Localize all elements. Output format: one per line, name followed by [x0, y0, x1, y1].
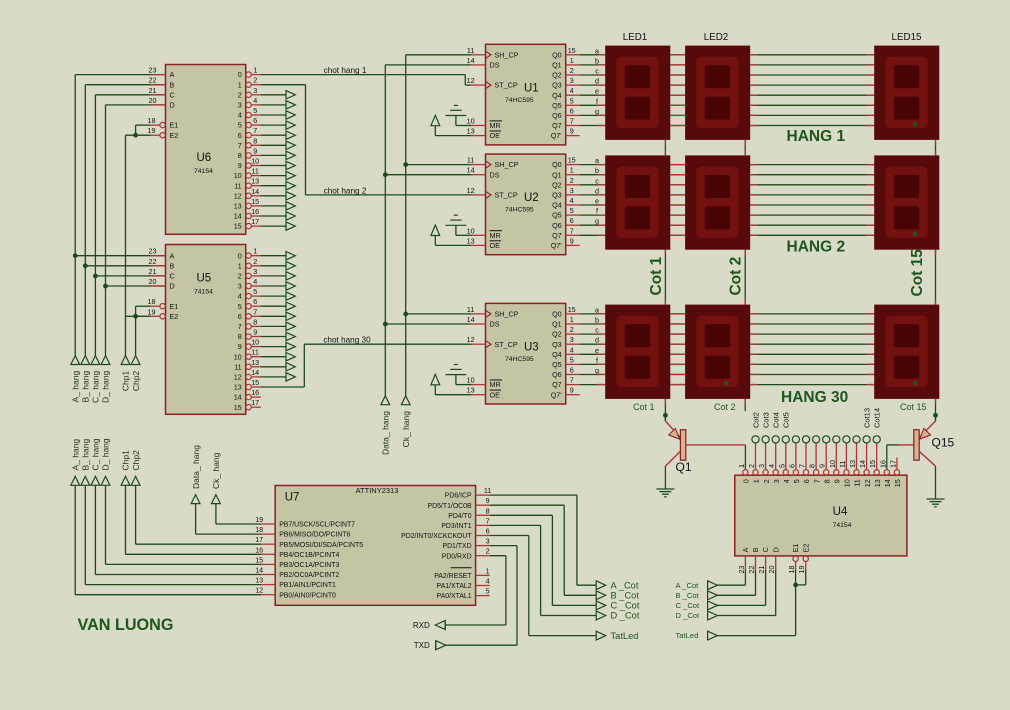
svg-text:C _Cot: C _Cot [676, 601, 701, 610]
svg-text:TatLed: TatLed [611, 631, 639, 641]
svg-text:PA2/RESET: PA2/RESET [434, 573, 472, 580]
svg-text:15: 15 [255, 555, 263, 564]
svg-text:13: 13 [234, 202, 242, 211]
svg-text:g: g [595, 366, 599, 375]
svg-text:Cot5: Cot5 [782, 412, 791, 428]
svg-text:DS: DS [490, 61, 500, 70]
labels lower terminal group [70, 438, 140, 470]
svg-text:23: 23 [149, 66, 157, 75]
svg-text:8: 8 [253, 317, 257, 326]
svg-text:13: 13 [251, 177, 259, 186]
svg-text:PA0/XTAL1: PA0/XTAL1 [437, 593, 472, 600]
labels A_Cot..TatLed group 1 [611, 580, 640, 640]
svg-text:19: 19 [148, 307, 156, 316]
svg-text:14: 14 [467, 56, 475, 65]
net labels a-g row U2 [595, 156, 599, 226]
svg-text:22: 22 [149, 257, 157, 266]
svg-text:HANG 30: HANG 30 [781, 389, 848, 406]
mcu U7 body [275, 486, 475, 606]
svg-text:11: 11 [234, 362, 241, 371]
svg-text:3: 3 [570, 76, 574, 85]
svg-text:74154: 74154 [194, 289, 213, 296]
svg-text:16: 16 [251, 207, 259, 216]
svg-text:9: 9 [238, 161, 242, 170]
svg-text:11: 11 [484, 486, 491, 495]
svg-text:Chp1: Chp1 [121, 450, 131, 471]
svg-text:8: 8 [486, 506, 490, 515]
svg-text:4: 4 [782, 479, 791, 483]
svg-text:11: 11 [853, 479, 862, 486]
svg-text:12: 12 [863, 479, 872, 487]
svg-text:PD4/T0: PD4/T0 [448, 513, 472, 520]
svg-text:C: C [170, 90, 175, 99]
wire PD4 to C_Cot [490, 515, 597, 605]
svg-text:4: 4 [253, 96, 257, 105]
wire lower Ck_hang to U7 PB7 [216, 504, 261, 524]
svg-text:13: 13 [848, 460, 857, 468]
svg-text:DS: DS [490, 320, 500, 329]
svg-text:9: 9 [253, 328, 257, 337]
7-segment display LED15 [866, 46, 939, 140]
svg-text:e: e [595, 197, 599, 206]
labels Data_hang Ck_hang upper pair [381, 411, 411, 455]
svg-text:PB7/USCK/SCL/PCINT7: PB7/USCK/SCL/PCINT7 [279, 522, 355, 529]
wire C_hang bus [95, 95, 165, 356]
svg-text:PB1/AIN1/PCINT1: PB1/AIN1/PCINT1 [279, 582, 336, 589]
svg-text:18: 18 [255, 525, 263, 534]
svg-text:HANG 1: HANG 1 [787, 128, 846, 145]
svg-text:RXD: RXD [413, 621, 430, 630]
svg-text:23: 23 [737, 566, 746, 574]
svg-text:15: 15 [234, 222, 242, 231]
wire PD2 to TatLed [490, 536, 597, 636]
svg-text:MR: MR [490, 121, 501, 130]
svg-text:A_ hang: A_ hang [70, 371, 80, 403]
svg-text:D: D [771, 547, 780, 552]
svg-text:chot hang 30: chot hang 30 [323, 336, 371, 345]
wire PD6 to A_Cot [490, 495, 597, 585]
junction dot E1 E2 net [793, 583, 798, 588]
svg-text:Chp2: Chp2 [131, 371, 141, 392]
svg-text:a: a [595, 46, 599, 55]
input terminal at U3 OE [431, 374, 472, 394]
svg-text:Q3: Q3 [552, 340, 562, 349]
svg-text:9: 9 [570, 236, 574, 245]
wire lower B_hang to U7 PB1 [85, 485, 261, 584]
svg-text:5: 5 [486, 587, 490, 596]
svg-text:Q7': Q7' [551, 390, 563, 399]
svg-text:5: 5 [238, 121, 242, 130]
svg-text:ST_CP: ST_CP [495, 191, 518, 200]
wire PD3 to D_Cot [490, 525, 597, 615]
svg-text:Q6: Q6 [552, 111, 562, 120]
svg-text:18: 18 [148, 297, 156, 306]
svg-text:17: 17 [255, 535, 263, 544]
terminal TXD [414, 641, 446, 650]
svg-text:Q5: Q5 [552, 101, 562, 110]
svg-text:Cot 2: Cot 2 [714, 402, 736, 412]
svg-text:A: A [741, 547, 750, 552]
svg-text:15: 15 [251, 378, 259, 387]
wire segment lines row 1 [580, 55, 875, 126]
transistor Q15 [898, 415, 936, 499]
decoder U4 body [735, 475, 907, 556]
svg-text:13: 13 [467, 236, 475, 245]
svg-text:10: 10 [251, 157, 259, 166]
svg-text:A: A [170, 251, 175, 260]
svg-text:VAN LUONG: VAN LUONG [78, 616, 174, 634]
svg-text:B: B [170, 80, 175, 89]
svg-text:LED15: LED15 [892, 32, 923, 43]
svg-text:Q4: Q4 [552, 201, 562, 210]
svg-text:15: 15 [893, 479, 902, 487]
svg-text:U5: U5 [197, 273, 212, 285]
svg-text:74HC595: 74HC595 [505, 97, 534, 104]
svg-text:2: 2 [570, 325, 574, 334]
svg-text:0: 0 [742, 479, 751, 483]
svg-text:12: 12 [467, 186, 475, 195]
svg-text:U3: U3 [524, 341, 539, 353]
wire A_Cot to U4 A [717, 570, 745, 585]
svg-text:15: 15 [568, 156, 576, 165]
svg-text:d: d [595, 77, 599, 86]
svg-text:Q7: Q7 [552, 121, 562, 130]
svg-text:13: 13 [255, 576, 263, 585]
svg-text:10: 10 [828, 460, 837, 468]
svg-text:1: 1 [253, 247, 257, 256]
power symbol at U2 MR [446, 215, 472, 235]
svg-text:Cot13: Cot13 [862, 408, 871, 428]
svg-text:PB2/OC0A/PCINT2: PB2/OC0A/PCINT2 [279, 572, 339, 579]
svg-text:6: 6 [570, 216, 574, 225]
svg-text:5: 5 [792, 479, 801, 483]
svg-text:13: 13 [467, 386, 475, 395]
input terminal at U2 OE [431, 225, 472, 245]
svg-text:Ck_ hang: Ck_ hang [211, 452, 221, 489]
svg-text:5: 5 [777, 464, 786, 468]
svg-text:16: 16 [255, 545, 263, 554]
svg-text:22: 22 [149, 76, 157, 85]
7-segment display LED-R3C15 [866, 305, 939, 399]
wire D_Cot to U4 D [717, 570, 775, 616]
svg-text:4: 4 [253, 277, 257, 286]
svg-text:B: B [751, 547, 760, 552]
svg-text:11: 11 [467, 156, 474, 165]
svg-text:2: 2 [747, 464, 756, 468]
7-segment display LED-R3C1 [597, 305, 670, 399]
svg-text:LED2: LED2 [704, 32, 729, 43]
svg-text:Q3: Q3 [552, 81, 562, 90]
output arrows of U5 [261, 252, 296, 382]
svg-text:10: 10 [467, 376, 475, 385]
svg-text:6: 6 [570, 366, 574, 375]
wire B_Cot to U4 B [717, 570, 755, 595]
junction dot Cot15 [933, 413, 938, 418]
svg-text:PB3/OC1A/PCINT3: PB3/OC1A/PCINT3 [279, 562, 339, 569]
svg-text:12: 12 [255, 586, 263, 595]
svg-text:4: 4 [486, 577, 490, 586]
svg-text:d: d [595, 186, 599, 195]
svg-text:10: 10 [234, 171, 242, 180]
svg-text:11: 11 [251, 167, 258, 176]
svg-text:MR: MR [490, 380, 501, 389]
svg-text:14: 14 [234, 393, 242, 402]
svg-text:D: D [170, 282, 175, 291]
svg-text:1: 1 [570, 315, 574, 324]
svg-text:17: 17 [251, 398, 259, 407]
wire Chp1 net (E pins of U6/U5) [126, 125, 151, 356]
svg-text:74HC595: 74HC595 [505, 356, 534, 363]
junction dot U6 E net [133, 133, 138, 138]
junction dot U5 E net [133, 314, 138, 319]
svg-text:Q1: Q1 [676, 460, 692, 474]
svg-text:PD3/INT1: PD3/INT1 [441, 523, 471, 530]
wire Ck_hang rail [406, 55, 472, 396]
svg-text:B _Cot: B _Cot [611, 591, 640, 601]
shift register U2 body [486, 154, 566, 255]
terminals Data_hang Ck_hang lower pair [191, 495, 220, 504]
svg-text:11: 11 [234, 181, 241, 190]
svg-text:12: 12 [234, 191, 242, 200]
svg-text:Q6: Q6 [552, 370, 562, 379]
svg-text:7: 7 [570, 117, 574, 126]
decoder U5 body [166, 245, 246, 415]
svg-text:7: 7 [570, 376, 574, 385]
wire lower Chp1 to U7 PB4 [126, 485, 262, 554]
svg-text:Cot 15: Cot 15 [900, 402, 927, 412]
wire Q1 base to U4 pin 1 [744, 445, 746, 469]
svg-text:16: 16 [878, 460, 887, 468]
wire lower C_hang to U7 PB2 [95, 485, 261, 574]
svg-text:Q6: Q6 [552, 221, 562, 230]
svg-text:Cot 15: Cot 15 [909, 249, 926, 297]
svg-text:13: 13 [251, 358, 259, 367]
7-segment display LED-R3C2 [677, 305, 750, 399]
svg-text:8: 8 [238, 332, 242, 341]
svg-text:8: 8 [808, 464, 817, 468]
svg-text:b: b [595, 166, 599, 175]
svg-text:TatLed: TatLed [676, 631, 699, 640]
svg-text:9: 9 [253, 146, 257, 155]
svg-text:11: 11 [467, 46, 474, 55]
svg-text:16: 16 [251, 388, 259, 397]
svg-text:b: b [595, 56, 599, 65]
terminals lower group to U7 [71, 476, 140, 485]
wire lower D_hang to U7 PB3 [106, 485, 262, 564]
svg-text:U7: U7 [285, 492, 300, 504]
svg-text:20: 20 [767, 566, 776, 574]
svg-text:OE: OE [490, 390, 501, 399]
svg-text:SH_CP: SH_CP [495, 160, 519, 169]
svg-text:3: 3 [570, 186, 574, 195]
svg-text:PD2/INT0/XCKCKOUT: PD2/INT0/XCKCKOUT [401, 533, 472, 540]
svg-text:U1: U1 [524, 82, 539, 94]
svg-text:9: 9 [570, 127, 574, 136]
svg-text:3: 3 [757, 464, 766, 468]
svg-text:10: 10 [467, 117, 475, 126]
svg-text:11: 11 [467, 305, 474, 314]
7-segment display LED1 [597, 46, 670, 140]
svg-text:Cot 1: Cot 1 [633, 402, 655, 412]
7-segment display LED-R2C1 [597, 155, 670, 249]
wire segment lines row 3 [580, 314, 875, 385]
svg-text:7: 7 [253, 126, 257, 135]
svg-text:2: 2 [253, 257, 257, 266]
svg-text:Q0: Q0 [552, 50, 562, 59]
svg-text:14: 14 [467, 315, 475, 324]
svg-text:Data_ hang: Data_ hang [381, 411, 391, 455]
svg-text:15: 15 [568, 46, 576, 55]
wire lower A_hang to U7 PB0 [75, 485, 261, 594]
svg-text:14: 14 [883, 479, 892, 487]
wire column commons [665, 140, 935, 421]
svg-text:Q3: Q3 [552, 191, 562, 200]
svg-text:10: 10 [251, 338, 259, 347]
svg-text:6: 6 [787, 464, 796, 468]
svg-text:3: 3 [238, 101, 242, 110]
junction dot Cot1 [663, 413, 668, 418]
junction dots on A-D bus at U5 [73, 253, 108, 288]
svg-text:Q15: Q15 [932, 436, 955, 450]
svg-text:MR: MR [490, 231, 501, 240]
svg-text:13: 13 [873, 479, 882, 487]
svg-text:Q1: Q1 [552, 170, 562, 179]
ground under Q15 [927, 499, 945, 507]
svg-text:3: 3 [253, 267, 257, 276]
svg-text:D _Cot: D _Cot [611, 611, 640, 621]
svg-text:7: 7 [238, 322, 242, 331]
wire TatLed to U4 E1 E2 [717, 570, 805, 636]
svg-text:Q1: Q1 [552, 320, 562, 329]
svg-text:18: 18 [787, 566, 796, 574]
svg-text:PD6/ICP: PD6/ICP [445, 493, 472, 500]
svg-text:9: 9 [570, 386, 574, 395]
red stubs right edges of displays [665, 55, 935, 404]
svg-text:PD1/TXD: PD1/TXD [442, 543, 471, 550]
svg-text:ATTINY2313: ATTINY2313 [356, 486, 399, 495]
svg-text:3: 3 [570, 335, 574, 344]
svg-text:1: 1 [737, 464, 746, 468]
svg-text:13: 13 [467, 127, 475, 136]
svg-text:f: f [596, 207, 598, 216]
svg-text:3: 3 [253, 86, 257, 95]
svg-text:5: 5 [570, 355, 574, 364]
svg-text:12: 12 [467, 335, 475, 344]
svg-text:6: 6 [802, 479, 811, 483]
svg-text:Q2: Q2 [552, 330, 562, 339]
svg-text:C: C [761, 547, 770, 552]
svg-text:9: 9 [486, 496, 490, 505]
svg-text:11: 11 [251, 348, 258, 357]
svg-text:2: 2 [762, 479, 771, 483]
svg-text:14: 14 [251, 187, 259, 196]
power symbol at U1 MR [446, 105, 472, 125]
svg-text:21: 21 [149, 267, 157, 276]
svg-text:7: 7 [570, 226, 574, 235]
svg-text:E1: E1 [170, 121, 179, 130]
svg-text:0: 0 [238, 70, 242, 79]
svg-text:SH_CP: SH_CP [495, 310, 519, 319]
svg-text:OE: OE [490, 131, 501, 140]
svg-text:6: 6 [238, 131, 242, 140]
svg-text:E1: E1 [791, 544, 800, 553]
svg-text:HANG 2: HANG 2 [787, 239, 846, 256]
svg-text:1: 1 [253, 66, 257, 75]
svg-text:Q7': Q7' [551, 131, 563, 140]
svg-text:15: 15 [234, 403, 242, 412]
svg-text:18: 18 [148, 116, 156, 125]
svg-text:C_ hang: C_ hang [91, 438, 101, 470]
svg-text:6: 6 [570, 106, 574, 115]
wire chot hang 2 [261, 85, 472, 195]
svg-text:2: 2 [486, 547, 490, 556]
svg-text:6: 6 [253, 297, 257, 306]
wire PD1 to TXD [446, 546, 517, 646]
svg-text:U4: U4 [833, 506, 848, 518]
svg-text:15: 15 [568, 305, 576, 314]
wire Q15 base from U4 pin 16 [887, 445, 898, 469]
svg-text:C_ hang: C_ hang [91, 371, 101, 403]
svg-text:U6: U6 [197, 152, 212, 164]
svg-text:PB6/MISO/DO/PCINT6: PB6/MISO/DO/PCINT6 [279, 532, 350, 539]
svg-text:15: 15 [868, 460, 877, 468]
svg-text:6: 6 [238, 312, 242, 321]
svg-text:20: 20 [149, 96, 157, 105]
svg-text:D: D [170, 101, 175, 110]
svg-text:1: 1 [238, 80, 242, 89]
terminals Data_hang Ck_hang upper pair [381, 396, 410, 405]
svg-text:9: 9 [818, 464, 827, 468]
svg-text:Cot3: Cot3 [761, 412, 770, 428]
svg-text:14: 14 [255, 566, 263, 575]
svg-text:Q1: Q1 [552, 61, 562, 70]
svg-text:B_ hang: B_ hang [81, 439, 91, 471]
svg-text:ST_CP: ST_CP [495, 81, 518, 90]
svg-text:74154: 74154 [194, 168, 213, 175]
svg-text:SH_CP: SH_CP [495, 50, 519, 59]
svg-text:Cot 1: Cot 1 [648, 256, 665, 295]
svg-text:C: C [170, 272, 175, 281]
svg-text:Q7': Q7' [551, 241, 563, 250]
svg-text:20: 20 [149, 277, 157, 286]
svg-text:A: A [170, 70, 175, 79]
svg-text:2: 2 [253, 76, 257, 85]
svg-text:1: 1 [570, 166, 574, 175]
svg-text:3: 3 [238, 282, 242, 291]
svg-text:ST_CP: ST_CP [495, 340, 518, 349]
svg-text:Q2: Q2 [552, 180, 562, 189]
svg-text:Cot 2: Cot 2 [728, 257, 745, 296]
svg-text:Q0: Q0 [552, 310, 562, 319]
svg-text:1: 1 [238, 261, 242, 270]
wire C_Cot to U4 C [717, 570, 765, 605]
labels upper terminal group [70, 371, 140, 403]
svg-text:D _Cot: D _Cot [676, 611, 701, 620]
svg-text:E2: E2 [170, 131, 179, 140]
svg-text:2: 2 [570, 176, 574, 185]
svg-text:7: 7 [798, 464, 807, 468]
svg-text:8: 8 [822, 479, 831, 483]
svg-text:19: 19 [148, 126, 156, 135]
svg-text:PB0/AIN0/PCINT0: PB0/AIN0/PCINT0 [279, 592, 336, 599]
svg-text:Q4: Q4 [552, 91, 562, 100]
svg-text:U2: U2 [524, 192, 539, 204]
power symbol at U3 MR [446, 365, 472, 385]
junction dots Ck rail [403, 162, 408, 316]
svg-text:12: 12 [234, 373, 242, 382]
svg-text:A _Cot: A _Cot [676, 581, 700, 590]
svg-text:1: 1 [570, 56, 574, 65]
